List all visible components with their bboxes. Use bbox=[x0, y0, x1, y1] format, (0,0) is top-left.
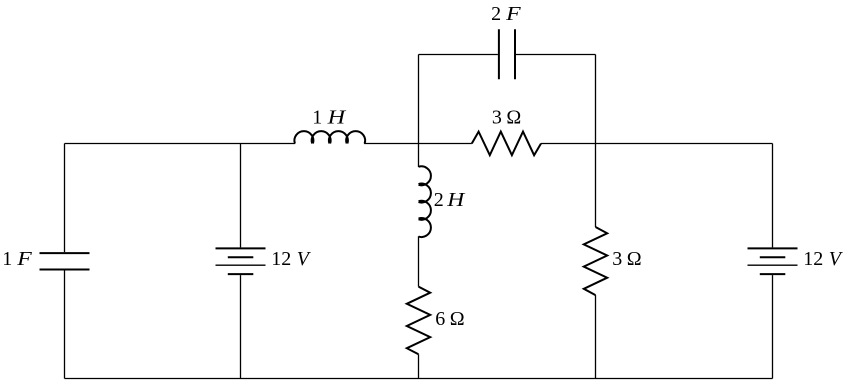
svg-text:2H: 2H bbox=[434, 189, 466, 211]
wire left vertical upper bbox=[64, 144, 66, 253]
wire between 3ohm and right node bbox=[541, 143, 773, 145]
svg-text:3Ω: 3Ω bbox=[492, 106, 521, 128]
capacitor 1F plates bbox=[40, 253, 90, 269]
resistor 3ohm vertical bbox=[584, 227, 607, 295]
battery B1 thin long plate bbox=[216, 264, 266, 266]
wire between 1H and central node bbox=[364, 143, 472, 145]
wire right battery branch upper bbox=[772, 144, 774, 248]
svg-text:1H: 1H bbox=[312, 106, 347, 128]
inductor 2H bbox=[419, 166, 431, 237]
wire central branch top bbox=[418, 144, 420, 168]
wire right-center vertical lower bbox=[595, 295, 597, 378]
wire top-left horizontal (node A to inductor) bbox=[65, 143, 296, 145]
wire right-center vertical upper bbox=[595, 55, 597, 228]
svg-text:6Ω: 6Ω bbox=[435, 308, 464, 330]
wire left battery branch lower bbox=[240, 275, 242, 378]
wire central branch middle bbox=[418, 236, 420, 286]
resistor 3ohm horizontal bbox=[472, 132, 541, 156]
battery B1 12V thick plates bbox=[216, 248, 266, 274]
wire left vertical lower bbox=[64, 271, 66, 379]
wire bottom horizontal bbox=[65, 378, 773, 380]
inductor 1H bbox=[294, 131, 365, 143]
battery B2 12V thick plates bbox=[748, 248, 798, 274]
capacitor 2F plates bbox=[499, 29, 515, 79]
svg-text:2F: 2F bbox=[491, 3, 521, 25]
resistor 6ohm vertical bbox=[407, 287, 430, 355]
battery B2 thin long plate bbox=[748, 264, 798, 266]
svg-text:3Ω: 3Ω bbox=[612, 248, 641, 270]
svg-text:1F: 1F bbox=[2, 248, 32, 270]
wire top loop right horizontal bbox=[516, 54, 596, 56]
wire left battery branch upper bbox=[240, 144, 242, 248]
wire top loop left horizontal bbox=[419, 54, 498, 56]
wire right battery branch lower bbox=[772, 275, 774, 378]
wire central branch bottom bbox=[418, 354, 420, 378]
wire top loop left vertical bbox=[418, 55, 420, 144]
